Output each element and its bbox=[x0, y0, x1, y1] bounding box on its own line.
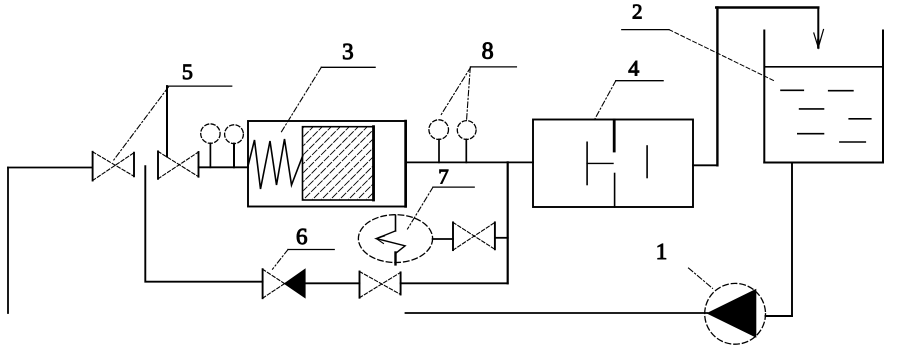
label 3 bbox=[281, 39, 375, 133]
wire: left inlet pipe bbox=[8, 167, 92, 169]
pump 1 bbox=[705, 283, 766, 344]
label 1 bbox=[656, 239, 713, 288]
svg-text:7: 7 bbox=[438, 164, 449, 188]
svg-text:8: 8 bbox=[482, 39, 494, 65]
box: heater unit 3 bbox=[248, 121, 406, 207]
wire: box 4 to riser bbox=[693, 164, 717, 166]
wire: valve 6 to valve V4 bbox=[305, 282, 359, 284]
wire: flow meter to valve V7 bbox=[433, 238, 453, 240]
valve V5a bbox=[93, 152, 134, 181]
gauge PG2 bbox=[225, 125, 244, 168]
gauge PG1 bbox=[201, 124, 220, 167]
label 8 bbox=[440, 39, 516, 120]
box: measuring device 4 bbox=[533, 120, 693, 208]
filter block (hatched) in box 3 bbox=[221, 120, 455, 210]
wire: pump suction bbox=[766, 315, 793, 317]
svg-text:4: 4 bbox=[628, 55, 639, 80]
gauge PG4 bbox=[457, 121, 476, 163]
label 7 bbox=[408, 164, 475, 229]
wire: riser up bbox=[716, 8, 718, 166]
svg-text:2: 2 bbox=[632, 0, 643, 23]
wire: top run to tank bbox=[716, 6, 818, 8]
wire: valve V7 to branch bbox=[495, 237, 508, 239]
check valve 6 bbox=[263, 269, 306, 298]
heating element zigzag in box 3 bbox=[248, 139, 303, 189]
wire: valve V5b to box 3 bbox=[199, 166, 249, 168]
gauge PG3 bbox=[429, 120, 449, 163]
box 4 divider lower bbox=[614, 174, 616, 208]
box 4 left probe bbox=[586, 142, 588, 184]
svg-text:3: 3 bbox=[342, 39, 354, 64]
valve V4 bbox=[360, 272, 401, 298]
wire: stem from label 5 bar to valve V5b bbox=[166, 86, 168, 156]
box 4 right probe bbox=[646, 146, 648, 178]
valve V7 bbox=[453, 222, 495, 250]
label 5 bbox=[113, 59, 232, 161]
svg-text:1: 1 bbox=[656, 239, 668, 264]
wire: tank outlet down to pump bbox=[791, 163, 793, 317]
wire: left vertical return pipe bbox=[7, 168, 9, 314]
svg-text:6: 6 bbox=[296, 224, 308, 249]
label 4 bbox=[594, 55, 663, 120]
flow meter 7 bbox=[358, 215, 432, 265]
tank 2 bbox=[764, 31, 883, 163]
valve V5b bbox=[158, 151, 199, 178]
wire: pump discharge line bbox=[406, 312, 708, 314]
box 4 divider upper (thick) bbox=[613, 120, 616, 151]
wire: valve V4 to branch corner bbox=[401, 282, 508, 284]
box 3 thick right edge bbox=[404, 121, 407, 207]
wire: drop into tank with arrow bbox=[814, 8, 824, 48]
wire: box 3 to box 4 bbox=[406, 161, 533, 163]
label 6 bbox=[273, 224, 335, 269]
label 2 bbox=[622, 0, 775, 81]
wire: branch from main pipe down to bottom loop bbox=[507, 162, 509, 283]
wire: bypass down-leg and bottom run to valve 6 bbox=[145, 166, 262, 282]
svg-text:5: 5 bbox=[182, 59, 193, 84]
